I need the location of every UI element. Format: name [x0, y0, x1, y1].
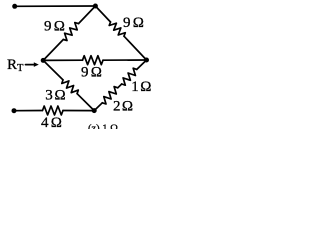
wire C-E zigzag to E — [77, 94, 94, 111]
resistor 9 ohm C-B zigzag — [63, 23, 78, 41]
node A dot — [12, 4, 17, 9]
wire 4ohm resistor to E — [63, 110, 94, 112]
svg-text:RT: RT — [7, 57, 24, 74]
wire B to B-D zigzag — [95, 6, 110, 22]
arrow RT shaft — [26, 64, 35, 66]
resistor 1 ohm zigzag — [122, 68, 137, 85]
node B dot — [93, 4, 98, 9]
svg-text:(z) 1 Ω: (z) 1 Ω — [88, 124, 118, 130]
resistor 9 ohm B-D zigzag — [109, 22, 125, 36]
svg-text:1Ω: 1Ω — [131, 79, 151, 95]
wire C to middle resistor — [43, 59, 82, 61]
node C dot — [41, 58, 46, 63]
svg-text:2Ω: 2Ω — [113, 99, 133, 115]
node D dot — [144, 58, 149, 63]
wire B-D zigzag to D — [124, 36, 147, 60]
node F dot — [12, 108, 17, 113]
wire between 1ohm and 2ohm — [118, 84, 122, 88]
resistor 2 ohm zigzag — [102, 87, 118, 104]
svg-text:9Ω: 9Ω — [44, 18, 65, 34]
wire top A-B — [15, 5, 96, 7]
wire C-B zigzag to B — [79, 6, 96, 24]
resistor 4 ohm zigzag — [43, 106, 64, 115]
wire 2ohm zigzag to E — [94, 103, 102, 111]
wire C to C-E zigzag — [43, 60, 63, 80]
wire C to C-B zigzag — [43, 40, 63, 61]
wire middle resistor to D — [103, 59, 147, 61]
arrow RT head — [34, 62, 39, 67]
svg-text:3Ω: 3Ω — [45, 88, 65, 104]
wire D to 1ohm zigzag — [137, 60, 147, 69]
svg-text:9Ω: 9Ω — [81, 65, 102, 81]
svg-text:9Ω: 9Ω — [123, 15, 144, 31]
resistor 9 ohm middle zigzag — [83, 56, 104, 65]
wire bottom F to 4ohm resistor — [14, 110, 43, 112]
resistor 3 ohm C-E zigzag — [62, 80, 79, 94]
node E dot — [92, 108, 97, 113]
svg-text:4Ω: 4Ω — [41, 115, 62, 129]
